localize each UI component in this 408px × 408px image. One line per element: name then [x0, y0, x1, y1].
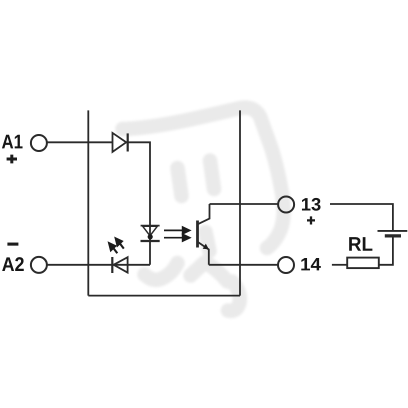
module box left edge: [87, 110, 89, 295]
wire A1 to diode: [47, 141, 112, 143]
label RL: [349, 237, 372, 251]
label A2: [2, 257, 24, 271]
resistor RL box: [347, 258, 379, 269]
phototransistor collector: [198, 204, 210, 224]
diode D1 triangle: [113, 133, 127, 152]
optocoupler LED triangle: [143, 226, 158, 236]
phototransistor emitter: [198, 242, 209, 265]
optocoupler light arrows: [164, 227, 191, 242]
wire emitter to terminal 14: [209, 264, 278, 266]
LED D2 triangle: [114, 257, 128, 272]
emitter arrowhead: [203, 244, 209, 250]
label A1: [2, 135, 23, 149]
terminal 14: [278, 257, 294, 273]
label + under A1: [7, 155, 17, 164]
terminal A1: [31, 135, 47, 151]
label + under 13: [307, 216, 315, 224]
label minus above A2: [7, 243, 18, 246]
optocoupler LED cathode bar: [141, 240, 160, 242]
terminal 13: [278, 197, 294, 213]
wire 13 to battery: [330, 204, 393, 230]
diode D1 cathode bar: [127, 133, 129, 151]
module box bottom edge: [88, 295, 240, 297]
optocoupler LED base line: [141, 225, 160, 227]
battery short plate: [385, 234, 401, 237]
wire collector to terminal 13: [210, 203, 278, 205]
wire 14 to RL: [332, 264, 347, 266]
wire D1 to corner and down: [126, 142, 150, 264]
phototransistor base bar: [196, 221, 199, 248]
LED D2 emission arrows: [108, 237, 124, 253]
label 13: [302, 198, 321, 211]
wire A2 row: [47, 264, 150, 266]
module box right edge: [239, 110, 241, 295]
terminal A2: [31, 257, 47, 273]
battery long plate: [378, 230, 408, 232]
label 14: [301, 258, 321, 270]
optocoupler LED junction dot: [148, 234, 153, 239]
wire battery down to RL: [379, 238, 393, 265]
watermark logo (light gray, tilted): [123, 108, 284, 311]
LED D2 cathode bar: [111, 257, 113, 273]
